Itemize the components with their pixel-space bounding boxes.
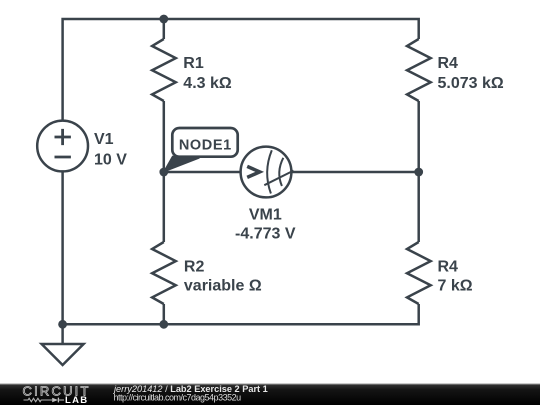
wire middle branch R1 to R2: [163, 101, 166, 242]
wire voltmeter to right branch: [291, 171, 419, 174]
voltmeter VM1: [241, 147, 294, 198]
resistor R2: [152, 242, 176, 304]
resistor R4 bottom: [407, 242, 431, 304]
svg-text:R1: R1: [183, 55, 204, 72]
svg-text:V1: V1: [94, 131, 114, 148]
junction dot bottom-mid: [159, 320, 168, 329]
resistor R4 top: [407, 39, 431, 101]
svg-text:5.073 kΩ: 5.073 kΩ: [438, 75, 504, 92]
svg-text:http://circuitlab.com/c7dag54p: http://circuitlab.com/c7dag54p3352u: [114, 392, 242, 402]
resistor R1: [152, 39, 176, 101]
junction dot bottom-left: [58, 320, 67, 329]
wire bottom-right corner: [63, 304, 419, 324]
svg-text:R4: R4: [438, 55, 459, 72]
wire right branch middle: [417, 101, 420, 242]
svg-text:VM1: VM1: [249, 206, 282, 223]
wire top-right corner: [164, 19, 419, 39]
svg-text:7 kΩ: 7 kΩ: [438, 278, 473, 295]
footer bar: [0, 384, 540, 405]
wire node to voltmeter: [164, 171, 241, 174]
wire top-left corner: [63, 19, 164, 121]
wire ground stub: [61, 324, 64, 344]
junction dot right: [414, 168, 423, 177]
CircuitLab logo: [23, 383, 91, 405]
svg-text:4.3 kΩ: 4.3 kΩ: [183, 75, 232, 92]
wire R2 bottom stub: [163, 304, 166, 324]
wire R1 top stub: [163, 19, 166, 39]
svg-text:10 V: 10 V: [94, 151, 127, 168]
voltage source V1: [37, 121, 88, 172]
wire left branch: [61, 171, 64, 324]
svg-text:variable Ω: variable Ω: [184, 278, 262, 295]
svg-text:NODE1: NODE1: [179, 138, 232, 154]
junction node A: [159, 168, 168, 177]
node NODE1 callout: [164, 128, 238, 172]
svg-text:LAB: LAB: [65, 395, 88, 405]
ground: [42, 344, 84, 365]
svg-text:-4.773 V: -4.773 V: [235, 225, 296, 242]
svg-text:R2: R2: [184, 259, 205, 276]
junction dot top: [159, 15, 168, 24]
svg-text:R4: R4: [438, 259, 459, 276]
